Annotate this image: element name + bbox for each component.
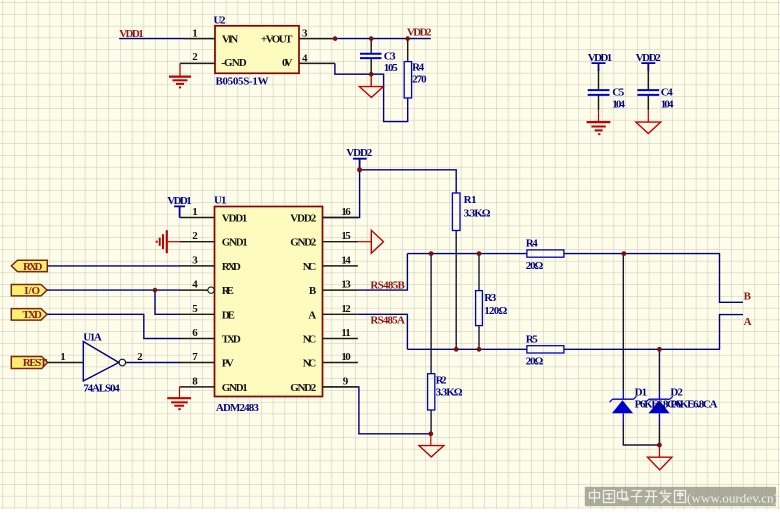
svg-text:74ALS04: 74ALS04 <box>83 383 120 395</box>
svg-text:GND1: GND1 <box>222 237 248 249</box>
svg-text:RS485A: RS485A <box>370 315 405 327</box>
svg-text:GND2: GND2 <box>290 382 317 394</box>
svg-text:U2: U2 <box>214 15 227 27</box>
svg-text:GND1: GND1 <box>222 382 248 394</box>
svg-text:DE: DE <box>222 309 235 321</box>
svg-text:C3: C3 <box>384 51 396 63</box>
svg-text:9: 9 <box>343 375 349 387</box>
svg-text:104: 104 <box>612 99 625 111</box>
svg-text:VDD1: VDD1 <box>588 52 613 64</box>
svg-text:TXD: TXD <box>23 309 43 321</box>
svg-text:20Ω: 20Ω <box>526 356 544 368</box>
svg-text:20Ω: 20Ω <box>526 260 544 272</box>
svg-text:GND2: GND2 <box>290 237 317 249</box>
svg-text:REST: REST <box>23 357 48 369</box>
svg-text:16: 16 <box>341 206 351 218</box>
svg-text:+VOUT: +VOUT <box>261 34 293 46</box>
svg-text:A: A <box>308 309 316 321</box>
svg-text:10: 10 <box>341 351 351 363</box>
svg-text:13: 13 <box>341 279 351 291</box>
svg-text:R2: R2 <box>436 375 448 387</box>
svg-text:NC: NC <box>303 261 317 273</box>
svg-text:14: 14 <box>341 254 351 266</box>
svg-text:B: B <box>744 291 752 303</box>
svg-text:B0505S-1W: B0505S-1W <box>216 76 269 88</box>
svg-text:VDD2: VDD2 <box>346 147 373 159</box>
svg-text:4: 4 <box>192 279 198 291</box>
svg-text:3.3KΩ: 3.3KΩ <box>464 208 491 220</box>
svg-text:104: 104 <box>661 99 674 111</box>
svg-text:D2: D2 <box>670 387 683 399</box>
svg-text:VDD2: VDD2 <box>636 52 662 64</box>
svg-text:12: 12 <box>341 303 351 315</box>
svg-text:U1: U1 <box>214 195 227 207</box>
svg-text:R5: R5 <box>526 334 539 346</box>
svg-text:0V: 0V <box>282 57 293 69</box>
svg-text:D1: D1 <box>635 387 648 399</box>
svg-text:3: 3 <box>192 254 198 266</box>
svg-text:3: 3 <box>302 28 308 40</box>
svg-text:A: A <box>744 316 752 328</box>
svg-text:ADM2483: ADM2483 <box>216 402 260 414</box>
svg-text:1: 1 <box>192 28 198 40</box>
svg-text:VDD2: VDD2 <box>290 213 317 225</box>
svg-text:105: 105 <box>384 62 399 74</box>
svg-text:RS485B: RS485B <box>370 280 405 292</box>
svg-text:VIN: VIN <box>222 34 238 46</box>
svg-text:VDD2: VDD2 <box>407 27 432 39</box>
svg-text:P6KE6.8CA: P6KE6.8CA <box>670 399 717 411</box>
svg-text:270: 270 <box>412 74 427 86</box>
svg-text:2: 2 <box>137 351 143 363</box>
svg-text:1: 1 <box>60 351 65 363</box>
svg-text:R4: R4 <box>526 238 539 250</box>
svg-text:PV: PV <box>222 358 234 370</box>
svg-text:VDD1: VDD1 <box>222 213 248 225</box>
svg-text:4: 4 <box>302 53 308 65</box>
svg-text:-GND: -GND <box>221 57 246 69</box>
svg-text:RE: RE <box>222 285 234 297</box>
svg-text:11: 11 <box>341 327 351 339</box>
svg-text:RXD: RXD <box>222 261 241 273</box>
svg-text:2: 2 <box>192 230 198 242</box>
svg-text:NC: NC <box>303 334 317 346</box>
svg-text:7: 7 <box>192 351 198 363</box>
svg-text:B: B <box>309 285 317 297</box>
svg-text:R3: R3 <box>484 292 497 304</box>
svg-text:5: 5 <box>192 303 198 315</box>
svg-text:R1: R1 <box>464 194 477 206</box>
svg-text:8: 8 <box>192 375 198 387</box>
svg-text:15: 15 <box>341 230 351 242</box>
svg-text:RXD: RXD <box>23 261 43 273</box>
svg-text:3.3KΩ: 3.3KΩ <box>436 387 463 399</box>
svg-text:R4: R4 <box>412 62 425 74</box>
svg-text:NC: NC <box>303 358 317 370</box>
svg-text:(www.ourdev.cn): (www.ourdev.cn) <box>687 491 778 506</box>
svg-text:VDD1: VDD1 <box>167 195 192 207</box>
svg-text:I/O: I/O <box>24 285 40 297</box>
svg-text:120Ω: 120Ω <box>484 305 507 317</box>
svg-text:U1A: U1A <box>83 332 102 344</box>
svg-text:C4: C4 <box>661 87 674 99</box>
svg-text:VDD1: VDD1 <box>119 28 144 40</box>
svg-text:1: 1 <box>192 206 198 218</box>
svg-text:C5: C5 <box>612 87 625 99</box>
svg-text:6: 6 <box>192 327 198 339</box>
svg-text:TXD: TXD <box>222 334 241 346</box>
svg-text:2: 2 <box>192 51 198 63</box>
